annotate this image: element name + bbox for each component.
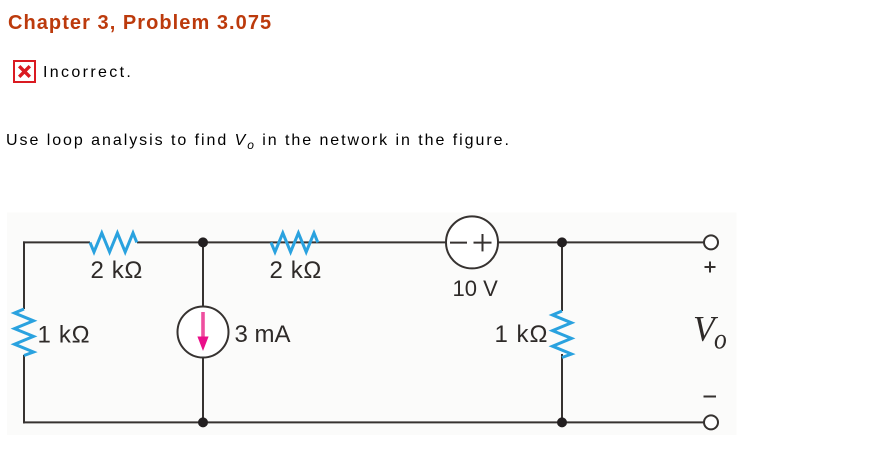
svg-text:3 mA: 3 mA bbox=[235, 321, 291, 348]
current source I1 3 mA bbox=[178, 307, 229, 358]
figure background bbox=[7, 213, 737, 436]
resistor R1 2 kOhm (top left, horizontal) bbox=[90, 233, 137, 252]
resistor R2 2 kOhm (top middle, horizontal) bbox=[271, 233, 318, 252]
plus sign (output polarity) bbox=[705, 262, 716, 273]
node B junction (top right) bbox=[557, 237, 567, 247]
resistor R4 1 kOhm (right, vertical) bbox=[553, 311, 572, 358]
svg-text:1 kΩ: 1 kΩ bbox=[495, 321, 549, 348]
incorrect text bbox=[43, 64, 133, 82]
wire: top middle (R1 to node A) bbox=[137, 241, 447, 243]
wire: left vertical upper bbox=[23, 241, 25, 309]
wire: left vertical lower bbox=[23, 355, 25, 423]
svg-text:1 kΩ: 1 kΩ bbox=[38, 321, 91, 348]
svg-text:2 kΩ: 2 kΩ bbox=[270, 257, 322, 284]
problem statement bbox=[6, 132, 511, 152]
terminal top (open circle) bbox=[704, 235, 718, 249]
svg-text:o: o bbox=[714, 323, 727, 356]
incorrect icon bbox=[13, 60, 36, 83]
wire: top right (V1 to terminal) bbox=[498, 241, 705, 243]
svg-text:2 kΩ: 2 kΩ bbox=[91, 257, 143, 284]
wire: right vertical upper (node B to R4) bbox=[561, 242, 563, 311]
terminal bottom (open circle) bbox=[704, 415, 718, 429]
svg-text:10 V: 10 V bbox=[453, 276, 499, 301]
node D junction (bottom right) bbox=[557, 417, 567, 427]
node C junction (bottom middle) bbox=[198, 417, 208, 427]
minus sign (output polarity) bbox=[704, 396, 717, 398]
node A junction (top middle) bbox=[198, 237, 208, 247]
wire: middle vertical lower (I1 to node C) bbox=[202, 358, 204, 423]
wire: top-left horizontal (corner to R1) bbox=[23, 241, 90, 243]
wire: middle vertical upper (node A to I1) bbox=[202, 242, 204, 306]
page title bbox=[8, 12, 272, 35]
voltage source V1 10 V bbox=[446, 216, 498, 268]
label Vo (output voltage) bbox=[693, 309, 727, 356]
wire: right vertical lower (R4 to node D) bbox=[561, 354, 563, 422]
wire: bottom horizontal bbox=[23, 421, 705, 423]
resistor R3 1 kOhm (left, vertical) bbox=[15, 309, 34, 356]
